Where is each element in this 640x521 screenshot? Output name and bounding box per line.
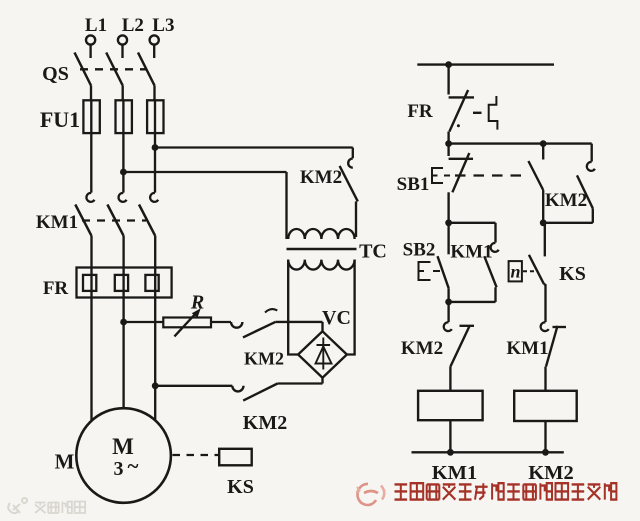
svg-text:SB2: SB2: [403, 240, 436, 261]
svg-text:3: 3: [114, 458, 124, 480]
svg-text:KM2: KM2: [300, 167, 342, 188]
svg-text:KM1: KM1: [506, 338, 548, 359]
svg-text:FU1: FU1: [40, 107, 80, 132]
svg-text:KM2: KM2: [244, 349, 284, 369]
svg-text:KM1: KM1: [36, 212, 78, 233]
svg-text:M: M: [55, 450, 75, 474]
svg-text:L2: L2: [122, 15, 144, 36]
svg-text:KM2: KM2: [545, 190, 587, 211]
svg-text:QS: QS: [42, 63, 69, 85]
svg-text:L3: L3: [152, 15, 174, 36]
svg-text:KM1: KM1: [432, 462, 478, 484]
svg-text:FR: FR: [43, 278, 69, 299]
svg-text:KM2: KM2: [243, 412, 287, 434]
svg-text:n: n: [510, 262, 520, 282]
svg-text:~: ~: [128, 454, 139, 478]
svg-text:VC: VC: [322, 307, 351, 329]
svg-text:FR: FR: [407, 101, 433, 122]
svg-text:SB1: SB1: [397, 174, 430, 195]
svg-text:KM2: KM2: [528, 462, 574, 484]
svg-text:KS: KS: [559, 263, 586, 285]
svg-text:R: R: [190, 292, 204, 314]
svg-text:KM1: KM1: [450, 242, 492, 263]
svg-text:TC: TC: [359, 241, 387, 263]
svg-text:L1: L1: [85, 15, 107, 36]
svg-text:KS: KS: [227, 476, 254, 498]
svg-text:KM2: KM2: [401, 338, 443, 359]
